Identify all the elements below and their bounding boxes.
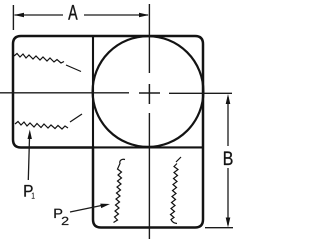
dimension A extension line at left face [12,5,14,30]
dimension B up arrowhead [226,94,231,104]
internal bore line horizontal (below circle) [92,146,203,148]
leader arrowhead P2 [100,204,110,209]
vertical centerline center dash [148,84,150,104]
label A [68,5,77,20]
dimension A line right part [84,14,148,16]
vertical centerline bottom segment [148,113,150,239]
vertical centerline top segment (A extension) [148,4,150,73]
horizontal centerline left segment [0,92,129,94]
internal bore line vertical (left of circle) [92,36,94,148]
label B [224,152,232,165]
dimension A left arrowhead [14,13,24,18]
label P2 [54,209,62,218]
thread tail upper left [66,65,81,72]
dimension B bottom extension line [205,227,233,229]
horizontal centerline right segment (B extension) [169,92,232,94]
dimension A right arrowhead [139,13,149,18]
leader arrow line P1 [28,134,29,180]
label P1 [24,185,32,197]
dimension B line lower part [227,168,229,225]
leader arrowhead P1 [28,130,32,140]
cylindrical boss circle [93,36,204,147]
thread zigzag bottom port left side [114,159,126,222]
thread zigzag lower left port [15,122,68,130]
leader arrow line P2 [70,205,105,212]
thread zigzag bottom port right side [171,157,182,224]
fitting body outline (L-shaped elbow) [13,36,203,228]
horizontal centerline center dash [139,92,160,94]
dimension A line left part [15,14,64,16]
thread tail lower left [70,114,82,122]
thread zigzag upper left port [14,54,64,64]
dimension B down arrowhead [226,218,231,228]
dimension B line upper part [227,97,229,146]
